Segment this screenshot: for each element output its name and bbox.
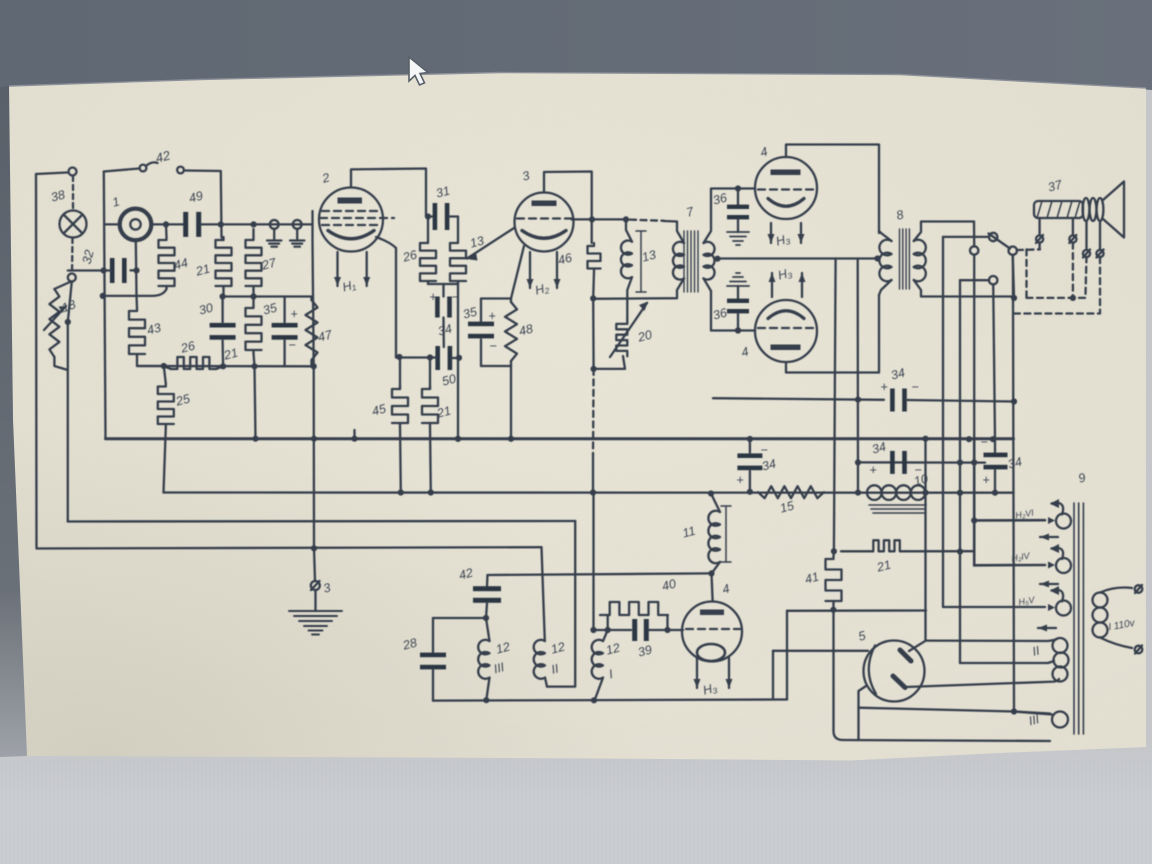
resistor 43 bbox=[135, 296, 138, 308]
transformer 8 core bbox=[900, 229, 910, 289]
tube 4a filament arrows H3 bbox=[770, 223, 772, 243]
column x255 from node366 to bus bbox=[255, 366, 256, 438]
wire x960 to S4 bbox=[960, 279, 989, 281]
transformer 9 core bbox=[1074, 503, 1083, 734]
wire left vertical from T1 down to y548 line bbox=[36, 174, 542, 549]
13L top lead bbox=[626, 219, 632, 241]
main ground bus bbox=[106, 437, 1014, 440]
x575 column down bbox=[547, 521, 575, 687]
7 secondary top lead to tube 4a grid bbox=[704, 189, 756, 244]
tube 3 plate wire bbox=[544, 172, 592, 244]
resistor 18 bottom lead bbox=[54, 357, 67, 370]
resistor 43 bottom lead bbox=[137, 357, 164, 366]
switch lever bbox=[989, 234, 1011, 249]
8 secondary top lead bbox=[914, 222, 974, 242]
wire from tube2 cathode into cap50 bbox=[396, 356, 436, 358]
capacitor 34f (series pair upper) bbox=[435, 297, 440, 318]
wire vertical x68 to y521 line bbox=[67, 322, 69, 522]
x960 column bbox=[959, 280, 961, 663]
winding III bbox=[1052, 712, 1068, 728]
transformer 7 core bbox=[684, 231, 698, 292]
capacitor 34a bbox=[890, 389, 895, 412]
jack bottom lead bbox=[135, 240, 138, 296]
capacitor 36a bbox=[737, 189, 739, 206]
x593 to coil12I and node 630 bbox=[603, 630, 608, 641]
choke 10 bbox=[867, 485, 882, 500]
B+ line y400 bbox=[713, 398, 884, 400]
speaker 37 neck rings bbox=[1083, 198, 1090, 221]
trimmer cap A bbox=[270, 220, 279, 229]
7 secondary center tap long wire bbox=[718, 257, 878, 259]
switch wires bbox=[973, 222, 976, 247]
wire top-left to terminal bbox=[36, 173, 67, 175]
resistor 40 / cap 39 parallel bbox=[594, 493, 608, 631]
tube 4a plate wire bbox=[786, 145, 879, 234]
cap50 right lead to x458 bbox=[452, 357, 459, 359]
winding II bbox=[1053, 638, 1068, 653]
coil 11 bbox=[708, 511, 720, 563]
capacitor 34c column x993 bbox=[994, 439, 996, 452]
trimmer cap B bbox=[293, 220, 302, 229]
capacitor 28 bbox=[432, 618, 434, 652]
7 secondary bottom lead to tube 4b grid bbox=[704, 278, 756, 330]
tube 5 filament arc bbox=[869, 646, 876, 695]
switch 42 wire from x104 bbox=[104, 169, 139, 172]
tube 4a bbox=[755, 157, 817, 219]
capacitor 35a bbox=[283, 297, 285, 323]
bus third y521 bbox=[68, 520, 575, 523]
column x354 tube2 filament? to bus bbox=[353, 430, 355, 439]
tube 3 bbox=[515, 193, 574, 252]
wire 42B to down-corner x221 bbox=[185, 171, 224, 241]
tube 5 left lead bbox=[773, 650, 868, 652]
x458 column to bus bbox=[457, 284, 459, 439]
switch contact S2 bbox=[989, 233, 997, 241]
x925 column bus to winding II bbox=[924, 439, 926, 641]
resistor 18 bbox=[54, 282, 71, 290]
lamp 38 dashed lead top bbox=[72, 176, 74, 210]
capacitor 34b bbox=[890, 451, 895, 474]
resistor 21d bbox=[429, 358, 431, 390]
primary winding I bbox=[1093, 593, 1108, 608]
node line y296 bbox=[223, 295, 311, 297]
tube 2 filament arrows H1 bbox=[336, 252, 338, 286]
heavy lead to winding IV bbox=[974, 564, 1045, 567]
node line y366 bbox=[137, 365, 314, 368]
x943 column bbox=[943, 237, 1045, 607]
transformer 7 secondary bbox=[704, 242, 715, 280]
tube 2 plate wire to cap31 bbox=[351, 169, 426, 217]
capacitor 35b bbox=[480, 299, 482, 322]
terminal T2 bbox=[68, 274, 76, 282]
resistor 47 bbox=[306, 300, 318, 360]
inductor 20 bottom lead bbox=[594, 356, 625, 369]
resistor 25 bbox=[158, 384, 174, 428]
arrow between V and II bbox=[1038, 627, 1056, 629]
bus fourth y548 bbox=[311, 545, 317, 551]
winding VI bbox=[1056, 514, 1071, 529]
arrow between VI and IV bbox=[1040, 536, 1058, 538]
tube 5 bottom diagonal bbox=[906, 679, 1059, 687]
tube 3 filament arrows H2 bbox=[529, 252, 531, 288]
coil27 top lead from wire bbox=[252, 229, 254, 237]
tube3 plate-right wire to IFT bbox=[572, 218, 627, 220]
resistor 21c bbox=[457, 217, 459, 241]
x1014 long column bbox=[1013, 255, 1014, 712]
IFT winding 13R bbox=[673, 242, 684, 280]
wire jack to cap49 bbox=[152, 223, 185, 225]
cap36a ground hatch bbox=[727, 232, 749, 245]
tube 5 anode leads bbox=[909, 641, 926, 651]
switch contact S4 bbox=[989, 276, 997, 284]
switch 42 contact A bbox=[140, 165, 147, 172]
coil 44 bbox=[159, 237, 175, 289]
dashed coupling link bbox=[630, 220, 664, 221]
line y462 bbox=[858, 461, 985, 464]
tube 4b plate wire bbox=[786, 362, 879, 373]
choke 10 core bbox=[869, 505, 926, 513]
coil 46 bbox=[588, 243, 601, 272]
coil 12 II bbox=[534, 640, 545, 679]
coil 12 III bbox=[486, 618, 490, 641]
13R top lead bbox=[664, 221, 684, 243]
wire T2 down bbox=[68, 282, 72, 323]
ground terminal 3 bbox=[314, 548, 315, 581]
wire cap49 to tube2 grid bbox=[200, 223, 312, 225]
arrow 13 to tube3 grid bbox=[467, 228, 514, 259]
wire x943 to S2 bbox=[943, 236, 989, 238]
line y610 bbox=[787, 609, 926, 612]
tube 4b filament arrows H3 bbox=[771, 273, 773, 297]
tube 2 grid tangent line bbox=[313, 211, 315, 548]
tube 4c bbox=[682, 602, 742, 662]
35b/48 box bbox=[481, 297, 511, 299]
cap32 left lead bbox=[68, 269, 112, 271]
coil 12 I bbox=[592, 640, 603, 679]
x858 column from B+ line bbox=[857, 259, 860, 493]
lamp 38 bbox=[60, 211, 87, 238]
IFT winding 13L bbox=[621, 241, 632, 279]
coil 21b lower bbox=[246, 305, 262, 353]
capacitor 32 bbox=[110, 258, 115, 283]
bottom wire y700 bbox=[433, 700, 787, 701]
bus second y492 bbox=[164, 491, 1014, 494]
wire x593 down bbox=[592, 272, 595, 299]
resistor 41 bbox=[832, 551, 835, 556]
switch contact S3 bbox=[1009, 247, 1017, 255]
tube 3 cathode lead bbox=[511, 246, 524, 299]
speaker terminals bbox=[1036, 235, 1043, 242]
x539 column down to coil 12II bbox=[542, 547, 545, 641]
coil 27 bbox=[246, 237, 262, 289]
x974 heavy to winding VI bbox=[974, 519, 1045, 522]
speaker 37 cone bbox=[1103, 182, 1124, 238]
line y618 bbox=[433, 617, 486, 619]
dashed link S3 to speaker terminal 1 bbox=[1017, 248, 1040, 251]
x787 column bbox=[786, 611, 788, 700]
primary leads/terminals bbox=[1100, 588, 1132, 593]
tube 2 cathode wire down bbox=[376, 237, 396, 358]
resistor 15 bbox=[758, 486, 824, 498]
tube 4c plate wire bbox=[712, 573, 713, 600]
tube 5 bbox=[864, 641, 925, 702]
jack left lead bbox=[105, 223, 120, 225]
bottom return line y740 bbox=[834, 610, 1051, 741]
resistor 21e bbox=[841, 550, 868, 552]
switch 42 contact B bbox=[177, 167, 184, 174]
dashed speaker wiring bbox=[1038, 243, 1040, 250]
resistor 45 bbox=[399, 358, 401, 390]
resistor 18 wiper arrow bbox=[44, 306, 66, 330]
capacitor 30 bbox=[221, 297, 223, 323]
tube 5 anodes bbox=[900, 650, 911, 661]
lines to winding II bbox=[926, 639, 1049, 642]
coil 21a bbox=[216, 237, 232, 289]
monitor pixel banding bbox=[2, 760, 1150, 864]
tube 2 bbox=[319, 188, 383, 252]
capacitor 36b bbox=[727, 273, 749, 286]
line y573 bbox=[488, 573, 712, 575]
res25 bottom lead down across bus bbox=[164, 427, 166, 493]
resistor 48 bbox=[505, 302, 517, 361]
tube 4c filament arrows H3 bbox=[696, 658, 698, 688]
capacitor 50 (series pair lower) bbox=[435, 346, 440, 370]
capacitor 31 bbox=[426, 215, 432, 217]
lamp 38 dashed lead bottom bbox=[71, 238, 74, 273]
arrow between IV and V bbox=[1040, 583, 1058, 585]
cap 34e column x750 bbox=[749, 439, 751, 453]
resistor 26b bbox=[427, 217, 429, 241]
mouse cursor bbox=[409, 57, 428, 85]
vertical bus x104 bbox=[104, 172, 106, 439]
variable inductor 20 bbox=[627, 277, 632, 318]
tube 4b bbox=[755, 300, 817, 362]
inductor 20 arrow bbox=[610, 303, 647, 357]
node y284 under 26b/21c bbox=[428, 283, 458, 285]
coil 11 core slug bbox=[721, 506, 731, 562]
13R bottom lead to x593 bbox=[593, 278, 684, 298]
resistor 26a bbox=[164, 366, 171, 369]
coil44 top lead bbox=[165, 224, 168, 237]
terminal T1 bbox=[69, 168, 77, 176]
antenna jack 1 bbox=[120, 209, 152, 241]
capacitor 42 column bbox=[486, 575, 489, 586]
capacitor 49 bbox=[183, 212, 188, 237]
transformer 8 primary bbox=[879, 240, 891, 282]
switch contact S1 bbox=[970, 246, 978, 254]
winding IV bbox=[1056, 558, 1071, 573]
IFT core slug bbox=[636, 231, 646, 292]
8 secondary bottom lead bbox=[914, 280, 1014, 297]
switch 42 lever bbox=[147, 162, 158, 165]
tube5 bottom line y711 bbox=[859, 708, 1051, 714]
cap32 right lead to resistor 43 bbox=[131, 269, 137, 271]
transformer 8 secondary bbox=[914, 240, 926, 282]
coil44 bottom lead bbox=[103, 289, 167, 296]
earth ground symbol bbox=[314, 590, 316, 611]
winding V bbox=[1056, 601, 1071, 616]
